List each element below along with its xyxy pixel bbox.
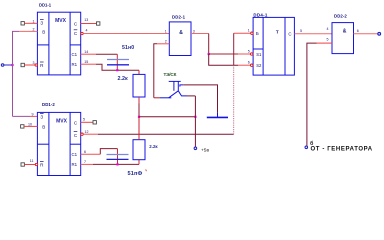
svg-text:1: 1: [248, 29, 250, 33]
input terminal X4 (square) to DD1-2 pin 11: [21, 163, 24, 166]
wire R1 bottom to +5V rail: [138, 104, 140, 117]
wire R1 rail to resistor R2 bottom: [93, 163, 139, 165]
IC DD2-1 AND gate body: [169, 22, 191, 56]
input terminal X2 (square) to DD1-1 pin 3: [21, 63, 24, 66]
capacitor C1 top plate: [107, 59, 129, 61]
svg-text:2.2к: 2.2к: [118, 76, 128, 82]
svg-text:2.2к: 2.2к: [149, 144, 158, 149]
svg-text:3: 3: [193, 29, 195, 33]
svg-text:R1: R1: [71, 162, 77, 167]
svg-text:S1: S1: [256, 52, 262, 57]
wire DD1-2 Q-bar rail to riser: [98, 133, 234, 135]
svg-text:4: 4: [327, 27, 329, 31]
DD4-1 S2 input inversion bubble: [251, 64, 253, 66]
svg-text:C1: C1: [71, 152, 77, 157]
svg-text:2: 2: [165, 40, 167, 44]
wire capacitor C1 vertical lead: [116, 54, 118, 70]
svg-text:6: 6: [357, 29, 359, 33]
svg-text:DD1-2: DD1-2: [42, 102, 55, 107]
wire DD2-1 input2 corner down to transistor: [154, 44, 157, 98]
svg-text:MVX: MVX: [56, 119, 68, 125]
wire DD2-1 input 2 from transistor net: [157, 43, 169, 45]
svg-text:14: 14: [84, 50, 88, 54]
svg-text:10: 10: [28, 122, 32, 126]
input terminal X1 (square) to DD1-1 pin 1: [21, 22, 24, 25]
DD1-1 R input inversion bubble: [35, 64, 37, 66]
wire riser lower faint section: [233, 65, 235, 134]
svg-text:13: 13: [84, 18, 88, 22]
IC DD4-1 flip-flop body: [253, 17, 294, 75]
svg-text:&: &: [179, 30, 183, 36]
svg-text:В: В: [42, 125, 45, 130]
svg-text:DD1-1: DD1-1: [39, 2, 52, 7]
svg-text:7: 7: [84, 160, 86, 164]
svg-text:5: 5: [327, 38, 329, 42]
svg-text:C: C: [288, 31, 291, 36]
wire +5V supply vertical to terminal: [194, 96, 196, 147]
wire DD2-2 input 2 from generator terminal: [307, 43, 317, 146]
resistor R1 body: [133, 74, 145, 97]
capacitor C2 top plate: [107, 154, 129, 156]
wire purple net stub to DD1-2 A input: [30, 115, 37, 117]
wire DD1-1 Q-bar to DD2-1 input 1: [83, 33, 169, 35]
svg-text:R1: R1: [71, 62, 77, 67]
wire transistor right lead to +5V vertical: [187, 95, 195, 97]
wire +5V horizontal rail: [139, 116, 195, 118]
svg-text:51н0: 51н0: [122, 45, 134, 51]
svg-text:9: 9: [32, 112, 34, 116]
svg-text:2: 2: [33, 27, 35, 31]
wire DD2-1 output down to junction: [208, 34, 210, 55]
output terminal (circle) DD2-2: [378, 32, 381, 35]
wire DD1-2 R1 rail to resistor R2 bottom: [81, 163, 93, 165]
capacitor C2 bottom plate: [107, 158, 129, 160]
wire resistor R1 bottom to +5V rail: [138, 97, 140, 104]
svg-text:15: 15: [84, 60, 88, 64]
wire stub to DD4-1 R bubble: [234, 32, 251, 34]
DD1-2 R input inversion bubble: [35, 163, 37, 165]
svg-text:1: 1: [33, 19, 35, 23]
junction R1/R2/+5V rail: [138, 116, 140, 118]
wire purple net to DD1-2 A input: [13, 115, 31, 117]
DD1-1 Q output wire to square terminal: [81, 23, 97, 25]
IC DD1-1 monostable body: [37, 12, 80, 75]
DD4-1 S1 input inversion bubble: [251, 53, 253, 55]
wire transistor emitter-left to DD2-1 input 2 net: [154, 97, 160, 99]
wire capacitor C2 vertical lead: [117, 149, 119, 165]
DD4-1 R input inversion bubble: [251, 32, 253, 34]
svg-text:В: В: [42, 30, 45, 35]
transistor VT1 symbol: [160, 81, 187, 97]
wire DD2-1 output to junction: [191, 33, 209, 35]
junction DD2-1 output node: [208, 53, 210, 55]
input terminal X3 (square) to DD1-2 pin 10: [21, 125, 24, 128]
wire DD1-2 Q-bar long rail to flip-flop area: [83, 133, 98, 135]
resistor R1 top stub: [138, 70, 140, 74]
svg-text:DD2-1: DD2-1: [172, 14, 186, 19]
DD1-2 Q-bar inversion bubble: [81, 133, 83, 135]
svg-text:5: 5: [248, 49, 250, 53]
svg-text:3: 3: [33, 61, 35, 65]
wire stub to DD4-1 S1 bubble: [238, 53, 251, 55]
wire DD2-2 output to terminal: [354, 33, 379, 35]
wire DD1-1 R1 to resistor R1 top: [81, 63, 96, 65]
wire purple net vertical: [13, 31, 20, 116]
artifact tick: [145, 169, 148, 171]
wire transistor collector to ground: [183, 85, 217, 113]
svg-text:11: 11: [30, 159, 34, 163]
DD1-2 Q output wire to square terminal: [81, 121, 93, 123]
svg-text:DD4-1: DD4-1: [253, 13, 267, 18]
junction capacitor C2 / R1 rail: [116, 163, 118, 165]
wire C1 continue to capacitor C1: [96, 53, 117, 55]
IC DD1-2 monostable body: [37, 112, 80, 175]
wire resistor R2 top to +5V rail: [138, 117, 140, 140]
output terminal (square) DD1-2 Q: [93, 121, 96, 124]
wire circle terminal to purple net: [4, 64, 13, 66]
DD1-1 Q-bar inversion bubble: [81, 32, 83, 34]
wire terminal X2 to DD1-1 R input: [24, 64, 35, 66]
resistor R2 bottom stub: [138, 160, 140, 165]
+5V supply terminal (circle): [194, 147, 197, 150]
svg-text:S2: S2: [256, 63, 262, 68]
wire DD1-1 C1 to capacitor C1: [81, 53, 96, 55]
junction on purple net: [11, 64, 13, 66]
svg-text:5: 5: [83, 118, 85, 122]
wire Q-bar rail riser to DD4-1 R input (crossing): [233, 33, 235, 65]
junction capacitor C1 / R1 wire: [116, 69, 118, 71]
capacitor C1 bottom plate: [107, 64, 129, 66]
svg-text:6: 6: [84, 150, 86, 154]
wire terminal X1 to DD1-1 A input: [24, 22, 37, 24]
wire junction to DD4-1 S1 input: [209, 53, 238, 55]
svg-text:4: 4: [86, 29, 88, 33]
wire terminal X3 to DD1-2 B input: [24, 125, 37, 127]
svg-text:З: З: [40, 21, 43, 26]
svg-text:З: З: [40, 114, 43, 119]
ground symbol: [207, 113, 228, 118]
wire DD4-1 output to DD2-2 input 1: [294, 33, 332, 35]
svg-text:MVX: MVX: [55, 18, 67, 24]
svg-text:5: 5: [300, 29, 302, 33]
IC DD2-2 AND gate body: [332, 23, 354, 54]
svg-text:1: 1: [165, 29, 167, 33]
svg-text:+5в: +5в: [201, 148, 209, 154]
wire C1 step over capacitor C2: [100, 149, 117, 155]
svg-text:ТЭ/СК: ТЭ/СК: [164, 72, 177, 77]
svg-text:Б: Б: [256, 31, 259, 36]
junction +5V rail / supply drop: [194, 116, 196, 118]
wire DD1-2 C1 to capacitor C2: [81, 153, 101, 155]
wire junction down and right to DD4-1 S2 input: [209, 54, 238, 65]
wire terminal X4 to DD1-2 R input: [24, 164, 35, 166]
input terminal X5 (circle) left mid: [1, 64, 4, 67]
svg-text:Т: Т: [276, 29, 279, 34]
svg-text:C1: C1: [71, 52, 77, 57]
svg-text:ОТ - ГЕНЕРАТОРА: ОТ - ГЕНЕРАТОРА: [311, 147, 373, 153]
output terminal (square) DD1-1 Q: [97, 22, 100, 25]
wire purple net stub to DD1-1 B input: [19, 30, 37, 32]
resistor R2 body: [133, 140, 145, 160]
generator input terminal (circle): [305, 146, 308, 149]
svg-text:6: 6: [248, 60, 250, 64]
svg-text:12: 12: [85, 130, 89, 134]
svg-text:&: &: [343, 29, 347, 35]
svg-text:DD2-2: DD2-2: [334, 13, 347, 18]
wire stub to DD4-1 S2 bubble: [238, 64, 251, 66]
svg-text:51пФ: 51пФ: [128, 171, 143, 177]
wire stub to DD2-2 input 2: [317, 42, 333, 44]
wire R1 continue to resistor R1 top: [96, 64, 139, 70]
